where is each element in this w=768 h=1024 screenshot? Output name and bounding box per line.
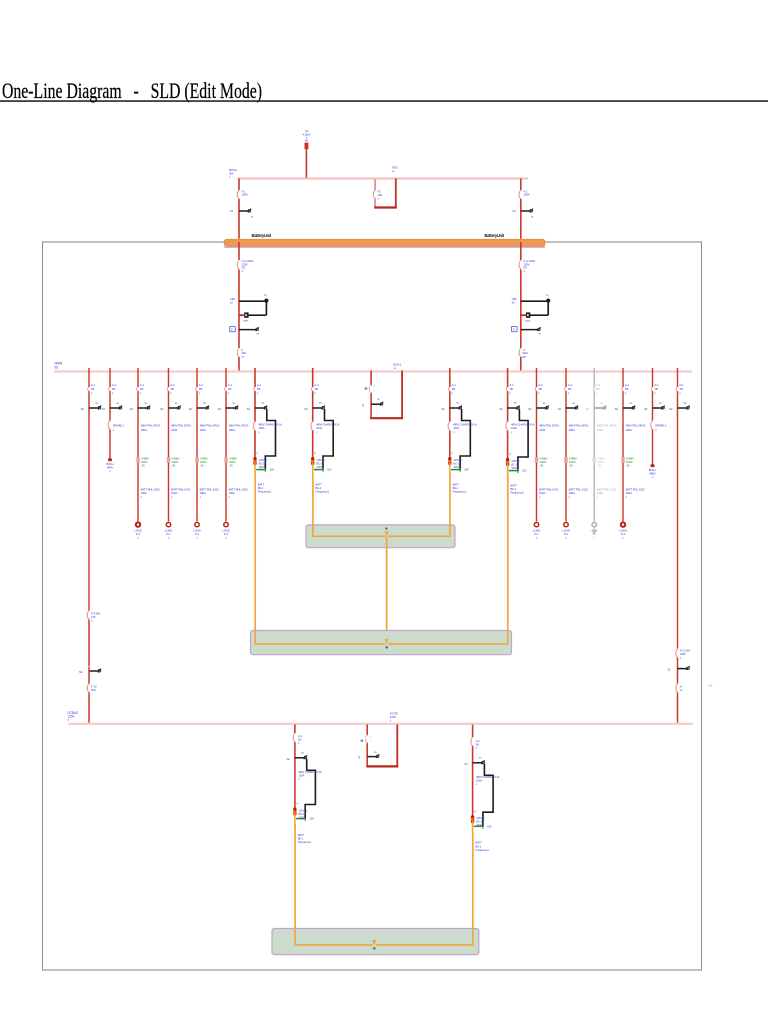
fuse on charger CHG-1A [311, 422, 314, 431]
svg-text:xx: xx [392, 169, 395, 173]
lower tie right leg [396, 725, 398, 767]
fuse on feeder load-4 top [225, 387, 227, 391]
dc box3 center arrow [372, 940, 376, 945]
switch label left left-bank [230, 327, 235, 332]
fuse on feeder riser-right top [676, 387, 678, 391]
wire lower bus [68, 723, 693, 725]
svg-text:xx: xx [572, 401, 575, 405]
charger CHG-1A green link [314, 469, 324, 471]
switch on feeder load-4 [226, 407, 236, 409]
svg-text:x: x [654, 391, 656, 395]
switch on charger CHG-2A [255, 407, 265, 409]
load motor circle load-1 [136, 522, 140, 526]
dc box2 center arrow [385, 639, 389, 644]
charger CHG-2B orange wire to dc bus2 [507, 475, 509, 645]
svg-text:BatteryUnit: BatteryUnit [252, 233, 272, 238]
svg-text:x: x [170, 391, 172, 395]
mid tie switch [371, 403, 381, 405]
svg-text:x: x [298, 777, 300, 781]
fuse on feeder stub-1 [109, 421, 112, 429]
svg-text:x: x [171, 495, 173, 499]
wire feeder stub-1 vertical [109, 368, 111, 460]
fuse F3 on tie left leg [374, 190, 377, 198]
svg-text:S2: S2 [189, 407, 193, 411]
switch label left right-bank [512, 327, 517, 332]
svg-text:4: 4 [257, 451, 259, 455]
load motor circle load-6 [564, 522, 568, 526]
svg-text:x: x [539, 495, 541, 499]
svg-text:x: x [257, 391, 259, 395]
svg-text:x: x [315, 391, 317, 395]
charger CHG-2A orange wire to dc bus2 [254, 474, 256, 645]
svg-text:x: x [377, 196, 379, 200]
utility U1 symbol [305, 143, 309, 150]
svg-text:x: x [652, 475, 654, 479]
svg-text:x: x [569, 495, 571, 499]
fuse on feeder stub-1 top [109, 387, 111, 391]
load motor circle load-4 [224, 522, 228, 526]
svg-text:S2: S2 [441, 407, 445, 411]
fuse F2 on right drop [519, 190, 522, 199]
charger CHG-3B dc converter symbol [471, 817, 475, 821]
svg-text:100A: 100A [229, 428, 235, 432]
switch SW2 on right drop [521, 210, 531, 212]
svg-text:1/1: 1/1 [708, 684, 713, 688]
feeder load-1 tap mark [136, 457, 139, 463]
svg-text:100A: 100A [141, 428, 147, 432]
svg-text:x: x [625, 391, 627, 395]
svg-text:60: 60 [305, 139, 308, 143]
wire feeder load-1 vertical [137, 368, 139, 521]
wire utility to top bus [305, 149, 307, 179]
svg-text:S2: S2 [287, 757, 291, 761]
svg-text:S2: S2 [160, 407, 164, 411]
breaker CB right-bank element box [526, 312, 530, 317]
fuse on left-bank [237, 260, 240, 269]
svg-text:x: x [511, 430, 513, 434]
svg-text:4: 4 [296, 802, 298, 806]
dc rack box 1 [306, 525, 455, 548]
svg-text:xx: xx [116, 401, 119, 405]
svg-text:xx: xx [543, 401, 546, 405]
fuse on charger CHG-1B [448, 422, 451, 431]
charger CHG-3A orange wire down [294, 824, 296, 946]
load motor circle load-5 [534, 522, 538, 526]
charger CHG-2B orange dc wire [507, 464, 509, 478]
charger CHG-3B orange wire down [472, 832, 474, 946]
svg-text:xx: xx [301, 750, 304, 754]
breaker CB right-bank down wire [547, 301, 549, 315]
charger CHG-3B rectifier loop (black) [483, 764, 493, 827]
feeder load-3 tap mark [195, 457, 198, 463]
svg-text:Frequency1: Frequency1 [475, 848, 489, 852]
dc box1 down wire to box2 [386, 537, 388, 641]
fuse on charger CHG-3B [471, 737, 474, 746]
svg-text:x: x [141, 495, 143, 499]
svg-text:4: 4 [314, 451, 316, 455]
charger CHG-1A orange wire to dc bus1 [312, 474, 314, 537]
svg-text:x: x [298, 741, 300, 745]
fuse on feeder load-2 top [167, 387, 169, 391]
svg-text:S: S [231, 328, 233, 332]
switch on charger CHG-1A [313, 407, 323, 409]
svg-text:S2: S2 [669, 407, 673, 411]
svg-text:4: 4 [474, 809, 476, 813]
svg-text:100%: 100% [316, 465, 323, 469]
riser right fuse lower [676, 684, 679, 693]
feeder load-8 tap mark [621, 457, 624, 463]
fuse lower on left-bank [237, 348, 240, 357]
svg-text:S2: S2 [464, 762, 468, 766]
svg-text:x: x [476, 782, 478, 786]
svg-text:100A: 100A [626, 428, 632, 432]
switch on feeder riser-right [678, 407, 688, 409]
svg-text:x: x [509, 391, 511, 395]
breaker CB right-bank red stub [521, 314, 526, 316]
svg-text:100%: 100% [453, 465, 460, 469]
svg-text:-30: -30 [200, 463, 204, 467]
svg-text:100A: 100A [569, 428, 575, 432]
dc box1 right orange entry [388, 525, 450, 536]
gray load arrow below [592, 527, 596, 533]
lower tie gray fuse [365, 735, 367, 744]
svg-text:x: x [199, 391, 201, 395]
switch on left-bank lower [239, 329, 257, 331]
svg-text:S2: S2 [528, 407, 532, 411]
charger CHG-3B green link [474, 825, 484, 827]
dc box2 right orange entry [388, 631, 508, 644]
svg-text:xx: xx [680, 688, 683, 692]
svg-text:x: x [679, 391, 681, 395]
svg-text:S2: S2 [586, 407, 590, 411]
svg-text:30A: 30A [91, 688, 96, 692]
svg-text:4: 4 [509, 452, 511, 456]
svg-text:S2: S2 [615, 407, 619, 411]
svg-text:100A: 100A [597, 428, 603, 432]
feeder load-6 tap mark [564, 457, 567, 463]
charger CHG-2B rectifier loop (black) [518, 409, 528, 470]
wire feeder stub-2 vertical [652, 368, 654, 466]
wire feeder load-5 vertical [536, 368, 538, 521]
load motor circle load-7-gray [592, 522, 596, 526]
svg-text:xx: xx [264, 293, 267, 297]
riser left wire mid [88, 620, 90, 667]
svg-text:a: a [251, 214, 253, 218]
svg-text:xx: xx [203, 401, 206, 405]
wire charger CHG-1B red vertical [449, 368, 451, 458]
feeder load-5 tap mark [535, 457, 538, 463]
fuse on feeder load-3 top [196, 387, 198, 391]
svg-text:x: x [374, 388, 376, 392]
svg-text:BatteryUnit: BatteryUnit [485, 233, 505, 238]
svg-text:xx: xx [659, 401, 662, 405]
breaker CB right-bank stub [521, 300, 548, 302]
svg-text:S9: S9 [79, 670, 83, 674]
breaker CB left-bank contact [265, 238, 267, 240]
fuse on feeder riser-left top [88, 387, 90, 391]
svg-text:xx: xx [374, 750, 377, 754]
feeder stub-2 end cap [651, 464, 655, 467]
svg-text:Frequency1: Frequency1 [258, 490, 272, 494]
wire feeder load-4 vertical [225, 368, 227, 521]
svg-text:S1: S1 [667, 668, 671, 672]
lower tie gray dot [361, 740, 364, 742]
mid tie right leg [401, 371, 403, 419]
svg-text:x: x [91, 619, 93, 623]
switch on feeder load-7-gray [594, 407, 604, 409]
svg-text:x: x [109, 469, 111, 473]
switch on feeder load-1 [138, 407, 148, 409]
svg-text:x: x [200, 495, 202, 499]
charger CHG-1B top label [449, 387, 451, 391]
wire charger CHG-3B red vertical [472, 725, 474, 817]
switch on feeder load-2 [169, 407, 179, 409]
riser left fuse upper [87, 611, 90, 620]
wire mid main bus [54, 370, 692, 372]
svg-text:S2: S2 [512, 209, 516, 213]
svg-text:xx: xx [538, 332, 541, 336]
svg-text:x: x [370, 738, 372, 742]
svg-text:-30: -30 [626, 463, 630, 467]
wire busbar feeder right-bank [520, 242, 522, 371]
svg-text:100A: 100A [523, 193, 529, 197]
svg-text:x: x [568, 391, 570, 395]
svg-text:Frequency1: Frequency1 [298, 840, 312, 844]
charger CHG-1B orange wire to dc bus1 [449, 474, 451, 537]
riser left switch [89, 670, 99, 672]
svg-text:100A: 100A [200, 428, 206, 432]
svg-text:x: x [596, 391, 598, 395]
breaker CB left-bank return wire [247, 314, 266, 316]
wire charger CHG-3A red vertical [294, 725, 296, 809]
svg-text:One-Line Diagram - SLD (Ed: One-Line Diagram - SLD (Edit Mode) [2, 78, 262, 103]
title underline [0, 100, 768, 102]
dc box1 center arrow [385, 532, 389, 537]
svg-text:SPARE-1: SPARE-1 [655, 424, 667, 428]
svg-text:-30: -30 [229, 463, 233, 467]
wire feeder load-8 vertical [622, 368, 624, 521]
svg-text:100: 100 [309, 817, 314, 821]
switch on feeder stub-2 [653, 407, 663, 409]
svg-text:x: x [476, 746, 478, 750]
svg-text:xx: xx [456, 401, 459, 405]
svg-text:xx: xx [319, 401, 322, 405]
charger CHG-3A dc converter symbol [293, 810, 297, 814]
mid tie gray fuse [369, 385, 371, 394]
fuse on feeder stub-2 top [651, 387, 653, 391]
svg-text:-30: -30 [141, 463, 145, 467]
svg-text:x: x [680, 656, 682, 660]
svg-text:x: x [538, 391, 540, 395]
switch on feeder load-6 [566, 407, 576, 409]
svg-text:Frequency1: Frequency1 [316, 490, 330, 494]
svg-text:S2: S2 [247, 407, 251, 411]
switch on feeder load-5 [537, 407, 547, 409]
charger CHG-1A orange dc wire [312, 463, 314, 477]
charger CHG-2A orange dc wire [254, 463, 256, 477]
dc box2 left orange entry [255, 631, 385, 644]
wire feeder load-3 vertical [196, 368, 198, 521]
feeder load-4 tap mark [224, 457, 227, 463]
load motor circle load-3 [195, 522, 199, 526]
switch on charger CHG-3B [473, 762, 483, 764]
svg-text:S2: S2 [304, 407, 308, 411]
svg-text:S2: S2 [102, 407, 106, 411]
fuse on feeder stub-2 [651, 421, 654, 429]
dc box1 left orange entry [313, 525, 385, 536]
svg-text:S2: S2 [558, 407, 562, 411]
feeder load-2 tap mark [167, 457, 170, 463]
switch on charger CHG-2B [508, 407, 518, 409]
charger CHG-2A top label [254, 387, 256, 391]
breaker CB left-bank element box [244, 312, 248, 317]
svg-text:-30: -30 [569, 463, 573, 467]
svg-text:xx: xx [479, 755, 482, 759]
wire charger CHG-2A red vertical [254, 368, 256, 458]
breaker CB left-bank down wire [265, 301, 267, 315]
svg-text:xx: xx [175, 401, 178, 405]
dc box3 center dot [373, 947, 375, 949]
charger CHG-2B green link [509, 470, 519, 472]
lower tie bottom wire [366, 765, 398, 767]
svg-text:xx: xx [232, 401, 235, 405]
charger CHG-2A dc converter symbol [253, 459, 257, 463]
riser left wire upper [88, 368, 90, 611]
switch on right-bank lower [521, 329, 539, 331]
charger CHG-1B dc converter symbol [448, 459, 452, 463]
fuse on charger CHG-2A [254, 422, 257, 431]
dc rack box 3 [272, 929, 479, 955]
svg-text:SPARE-1: SPARE-1 [113, 424, 125, 428]
svg-text:S: S [513, 328, 515, 332]
svg-text:xx: xx [95, 401, 98, 405]
svg-text:xx: xx [377, 397, 380, 401]
dc box3 left orange entry [295, 929, 373, 945]
fuse on feeder load-8 top [622, 387, 624, 391]
riser right wire upper [677, 368, 679, 649]
feeder load-7-gray tap mark [593, 457, 596, 463]
svg-text:x: x [113, 428, 115, 432]
svg-text:xx: xx [629, 401, 632, 405]
svg-text:Frequency1: Frequency1 [510, 491, 524, 495]
svg-text:x: x [597, 495, 599, 499]
dc box2 center dot [386, 646, 388, 648]
svg-text:x: x [228, 391, 230, 395]
svg-text:100: 100 [522, 469, 527, 473]
charger CHG-1B rectifier loop (black) [460, 409, 470, 469]
svg-text:-30: -30 [540, 463, 544, 467]
svg-text:100: 100 [327, 468, 332, 472]
switch SW1 on left drop [239, 210, 249, 212]
svg-text:xx: xx [261, 401, 264, 405]
lower tie left leg [366, 725, 368, 736]
svg-text:xx: xx [394, 366, 397, 370]
svg-text:S: S [358, 756, 360, 760]
svg-text:100A: 100A [539, 428, 545, 432]
svg-text:xx: xx [546, 293, 549, 297]
charger CHG-1A dc converter symbol [311, 459, 315, 463]
svg-text:x: x [453, 430, 455, 434]
svg-text:a: a [532, 214, 534, 218]
svg-text:4: 4 [451, 451, 453, 455]
charger CHG-1A top label [312, 387, 314, 391]
wire busbar feeder left-bank [238, 242, 240, 371]
dc box3 right orange entry [376, 929, 473, 945]
svg-text:100: 100 [269, 468, 274, 472]
svg-text:S2: S2 [644, 407, 648, 411]
fuse on feeder load-7-gray top [593, 387, 595, 391]
charger CHG-2A rectifier loop (black) [265, 409, 275, 469]
fuse lower on right-bank [519, 348, 522, 357]
svg-text:S2: S2 [218, 407, 222, 411]
riser left fuse lower [87, 684, 90, 693]
fuse on feeder load-6 top [565, 387, 567, 391]
switch on feeder stub-1 [110, 407, 120, 409]
svg-text:S: S [362, 404, 364, 408]
charger CHG-1B green link [451, 469, 461, 471]
breaker CB left-bank red stub [239, 314, 244, 316]
svg-text:x: x [258, 430, 260, 434]
svg-text:100A: 100A [171, 428, 177, 432]
diagram frame border [43, 242, 702, 970]
busbar (orange) [224, 246, 545, 248]
svg-text:x: x [390, 719, 392, 723]
mid tie gray dot [365, 387, 368, 389]
fuse F1 on left drop [238, 190, 241, 199]
svg-text:100%: 100% [259, 465, 266, 469]
switch on charger CHG-3A [295, 757, 305, 759]
charger CHG-3B orange dc wire [472, 821, 474, 835]
fuse on feeder load-5 top [535, 387, 537, 391]
wire feeder load-6 vertical [565, 368, 567, 521]
svg-text:xx: xx [684, 401, 687, 405]
switch on feeder riser-left [89, 407, 99, 409]
mid tie left leg [370, 371, 372, 386]
tie loop right leg [395, 179, 397, 208]
svg-text:xxxx: xxxx [243, 318, 249, 322]
breaker CB right-bank contact [547, 520, 549, 522]
svg-text:100: 100 [487, 824, 492, 828]
switch on feeder load-8 [623, 407, 633, 409]
fuse on charger CHG-3A [293, 733, 296, 742]
lower tie switch [367, 756, 377, 758]
wire charger CHG-1A red vertical [312, 368, 314, 458]
svg-text:-30: -30 [172, 463, 176, 467]
svg-text:x: x [229, 495, 231, 499]
svg-text:x: x [140, 391, 142, 395]
svg-text:x: x [91, 391, 93, 395]
charger CHG-2B top label [506, 387, 508, 391]
wire top bus [237, 178, 528, 180]
fuse on feeder load-1 top [137, 387, 139, 391]
svg-text:xx: xx [514, 401, 517, 405]
svg-text:x: x [626, 495, 628, 499]
svg-text:100%: 100% [511, 466, 518, 470]
riser right fuse upper [676, 649, 679, 658]
dc rack box 1 center dot [385, 528, 387, 530]
wire drop right x521.5 [520, 179, 522, 239]
svg-text:S2: S2 [499, 407, 503, 411]
feeder stub-1 end cap [108, 458, 112, 461]
riser right switch [678, 668, 688, 670]
wire drop left x239 [238, 179, 240, 239]
breaker CB right-bank return wire [529, 314, 548, 316]
svg-text:S2: S2 [130, 407, 134, 411]
wire charger CHG-2B red vertical [507, 368, 509, 459]
breaker CB left-bank stub [239, 300, 266, 302]
mid tie bottom wire [370, 417, 403, 419]
svg-text:xx: xx [600, 401, 603, 405]
